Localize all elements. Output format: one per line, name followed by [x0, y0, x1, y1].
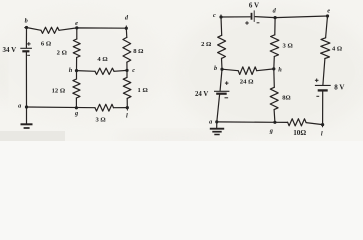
svg-text:e: e	[75, 20, 78, 27]
svg-text:8 V: 8 V	[334, 83, 344, 91]
svg-text:10Ω: 10Ω	[293, 129, 306, 137]
svg-text:4 Ω: 4 Ω	[97, 56, 107, 63]
svg-text:e: e	[327, 8, 330, 15]
svg-text:6 V: 6 V	[249, 2, 259, 10]
svg-text:h: h	[69, 67, 73, 74]
svg-text:l: l	[126, 112, 128, 119]
svg-text:g: g	[269, 127, 273, 134]
svg-text:3 Ω: 3 Ω	[283, 43, 293, 50]
svg-text:b: b	[25, 18, 28, 25]
svg-text:a: a	[209, 118, 212, 125]
svg-text:c: c	[213, 12, 216, 19]
svg-text:6 Ω: 6 Ω	[41, 41, 51, 48]
svg-text:1 Ω: 1 Ω	[138, 87, 148, 94]
svg-text:h: h	[278, 67, 282, 74]
svg-text:g: g	[74, 110, 78, 117]
svg-text:2 Ω: 2 Ω	[57, 49, 67, 56]
svg-text:8Ω: 8Ω	[282, 94, 290, 101]
svg-text:l: l	[321, 131, 323, 138]
svg-text:b: b	[214, 65, 217, 72]
svg-text:24 V: 24 V	[195, 91, 208, 98]
svg-text:12 Ω: 12 Ω	[52, 88, 66, 95]
svg-text:c: c	[132, 67, 135, 74]
svg-text:34 V: 34 V	[3, 46, 17, 54]
svg-text:24 Ω: 24 Ω	[240, 79, 254, 86]
svg-text:8 Ω: 8 Ω	[133, 48, 143, 55]
svg-text:3 Ω: 3 Ω	[95, 117, 105, 124]
svg-text:a: a	[18, 103, 21, 110]
svg-text:4 Ω: 4 Ω	[332, 45, 342, 52]
svg-text:2 Ω: 2 Ω	[201, 41, 211, 48]
